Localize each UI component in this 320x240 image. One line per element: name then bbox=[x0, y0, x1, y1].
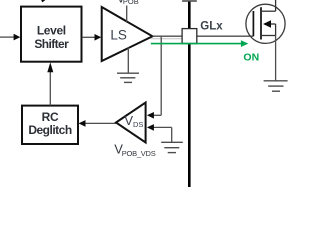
wire LS buffer to ground bbox=[127, 48, 129, 74]
arrowhead into RC deglitch bbox=[79, 120, 86, 127]
MOSFET channel bar bbox=[260, 7, 262, 39]
green arrowhead bbox=[241, 40, 248, 47]
arrowhead fragment top edge bbox=[41, 0, 45, 2]
svg-text:RC: RC bbox=[42, 110, 59, 124]
node GLx pad square bbox=[182, 29, 197, 44]
arrowhead into VDS bottom input bbox=[147, 124, 154, 131]
ground below LS buffer bbox=[117, 73, 139, 82]
pad bar top edge bbox=[182, 0, 197, 2]
MOSFET body-source junction wire bbox=[275, 24, 277, 36]
svg-text:LS: LS bbox=[110, 27, 127, 42]
MOSFET gate bar bbox=[252, 11, 254, 36]
wire VDS bottom input bbox=[154, 126, 172, 128]
MOSFET Q1 circle bbox=[246, 4, 285, 43]
arrowhead into VDS top input bbox=[147, 112, 154, 119]
svg-text:POB_VDS: POB_VDS bbox=[122, 149, 156, 158]
wire branch down to VDS comparator bbox=[160, 36, 162, 115]
wire MOSFET source to ground bbox=[275, 36, 277, 81]
faint wire shadow bbox=[151, 38, 182, 40]
wire VDS comparator to RC deglitch bbox=[85, 122, 116, 124]
svg-text:ON: ON bbox=[243, 52, 259, 64]
wire RC deglitch to level shifter bbox=[49, 70, 51, 106]
wire gate GLx from LS buffer to MOSFET bbox=[153, 35, 254, 37]
MOSFET body wire bbox=[271, 23, 276, 25]
svg-text:Deglitch: Deglitch bbox=[28, 123, 72, 137]
VDS comparator triangle bbox=[116, 103, 146, 143]
svg-text:POB: POB bbox=[123, 0, 139, 6]
ground at VDS reference bbox=[161, 142, 183, 152]
wire VPOB to LS buffer bbox=[126, 6, 128, 22]
MOSFET drain stub bbox=[261, 10, 276, 12]
svg-text:Level: Level bbox=[37, 24, 66, 38]
arrowhead into level shifter bbox=[14, 34, 21, 41]
wire level shifter to LS buffer bbox=[82, 36, 95, 38]
svg-text:DS: DS bbox=[133, 120, 143, 129]
arrowhead into LS buffer bbox=[95, 34, 102, 41]
bus wire GLx vertical bbox=[188, 1, 191, 187]
wire down to ground bbox=[171, 127, 173, 142]
ground below MOSFET bbox=[264, 81, 288, 91]
green ON signal line bbox=[151, 43, 242, 45]
wire corner to VDS top input bbox=[154, 114, 162, 116]
MOSFET drain wire up bbox=[275, 0, 277, 11]
wire input to level shifter bbox=[0, 36, 14, 38]
level shifter block bbox=[21, 7, 82, 62]
RC deglitch block bbox=[22, 106, 78, 144]
svg-text:Shifter: Shifter bbox=[34, 37, 69, 51]
MOSFET body arrowhead bbox=[263, 20, 271, 27]
svg-text:GLx: GLx bbox=[200, 20, 223, 32]
arrowhead into level shifter bottom bbox=[47, 62, 53, 72]
MOSFET source stub bbox=[261, 35, 276, 37]
LS buffer triangle bbox=[102, 7, 153, 61]
